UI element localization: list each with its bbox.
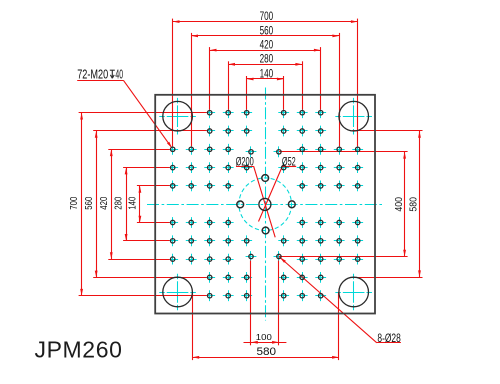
svg-text:140: 140 xyxy=(260,67,274,80)
svg-text:420: 420 xyxy=(99,196,110,209)
svg-text:400: 400 xyxy=(394,197,405,212)
svg-text:Ø52: Ø52 xyxy=(282,155,296,169)
svg-text:700: 700 xyxy=(69,196,80,209)
svg-text:8-Ø28: 8-Ø28 xyxy=(377,331,401,345)
svg-text:Ø200: Ø200 xyxy=(236,154,254,168)
svg-text:280: 280 xyxy=(260,53,274,66)
svg-text:560: 560 xyxy=(260,24,274,37)
svg-text:560: 560 xyxy=(84,196,95,209)
svg-text:580: 580 xyxy=(409,197,420,212)
svg-text:72-M20: 72-M20 xyxy=(77,67,108,81)
svg-text:280: 280 xyxy=(114,196,125,209)
svg-text:580: 580 xyxy=(257,346,277,358)
svg-text:40: 40 xyxy=(115,67,123,81)
svg-text:700: 700 xyxy=(260,10,274,23)
svg-text:100: 100 xyxy=(256,332,272,342)
svg-text:JPM260: JPM260 xyxy=(35,337,123,363)
svg-text:140: 140 xyxy=(128,196,139,209)
svg-text:420: 420 xyxy=(260,39,274,52)
